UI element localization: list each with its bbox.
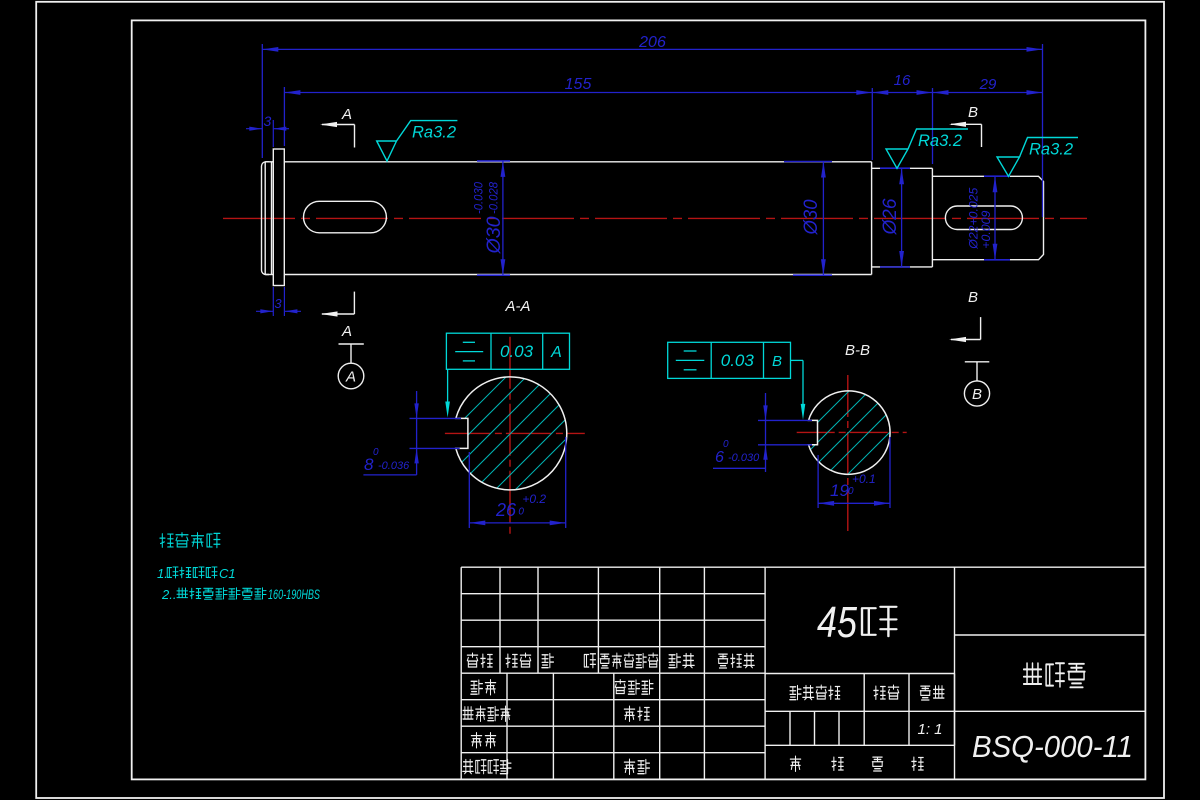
dim 26: line and arrows <box>469 522 565 524</box>
shaft left segment right edge <box>271 162 273 275</box>
stage mark / qty / scale row <box>790 685 801 699</box>
sheet count row <box>790 756 800 771</box>
dim phi22: line and arrows <box>994 176 996 260</box>
svg-text:A-A: A-A <box>504 298 530 315</box>
dim phi30 plain: ticks <box>784 161 832 163</box>
roughness Ra3.2 on phi22 <box>997 138 1078 177</box>
section B-B centerlines <box>847 375 849 533</box>
dim 6: vertical line and outside arrows <box>765 393 767 472</box>
technical requirements title <box>160 534 173 548</box>
dim phi26: ticks <box>880 167 910 169</box>
dim 3 top extension line <box>272 120 274 147</box>
svg-text:Ra3.2: Ra3.2 <box>412 124 456 142</box>
keyway slot on phi22 section <box>945 206 1022 230</box>
svg-text:B-B: B-B <box>845 342 870 359</box>
svg-text:C1: C1 <box>219 566 236 581</box>
dim phi26: line and arrows <box>901 168 903 267</box>
svg-text:A: A <box>341 323 352 340</box>
svg-text:-0.028: -0.028 <box>488 181 500 214</box>
phi26 section top edge <box>872 167 933 169</box>
shaft raised collar band (3 wide) <box>273 149 284 286</box>
svg-text:A: A <box>341 106 352 123</box>
phi30 shaft body bottom edge <box>284 274 871 276</box>
geometric tolerance frame A <box>446 333 569 369</box>
tolerance frame A leader arrow <box>447 369 449 402</box>
svg-text:A: A <box>345 369 356 386</box>
svg-text:3: 3 <box>264 113 272 129</box>
svg-text:3: 3 <box>274 296 282 311</box>
geometric tolerance frame B <box>668 342 791 378</box>
svg-text:1: 1: 1: 1 <box>917 721 942 738</box>
dim phi30 plain: line and arrows <box>822 162 824 276</box>
symmetry symbol in frame B <box>676 359 705 361</box>
phi30 shaft body top edge <box>284 161 871 163</box>
section arrow B bottom <box>951 339 981 341</box>
title block signature rows <box>471 680 483 694</box>
section A-A hatching <box>302 310 716 560</box>
svg-text:B: B <box>968 104 978 121</box>
svg-text:-0.030: -0.030 <box>474 181 486 214</box>
svg-text:+0.1: +0.1 <box>852 472 876 486</box>
svg-text:0: 0 <box>848 486 854 497</box>
svg-text:26: 26 <box>495 500 517 520</box>
dim 16 line and arrows <box>872 92 932 94</box>
datum A symbol <box>339 343 364 345</box>
dim 26: extension lines <box>468 452 470 528</box>
dim phi30 toleranced: ticks <box>477 160 510 162</box>
svg-text:155: 155 <box>565 76 592 93</box>
svg-text:Ø30: Ø30 <box>801 199 822 235</box>
svg-text:45: 45 <box>817 598 857 647</box>
svg-text:+0.2: +0.2 <box>522 492 546 506</box>
dim 3 top line with outside arrows <box>246 128 262 130</box>
dim 19: extension lines <box>817 455 819 508</box>
phi26/phi22 step face <box>931 168 933 267</box>
datum B symbol <box>965 361 990 363</box>
svg-text:160-190HBS: 160-190HBS <box>268 587 320 602</box>
dim phi22: ticks <box>984 175 1010 177</box>
shaft left segment top and bottom edges <box>265 161 273 163</box>
phi22 section outline with end chamfer <box>932 176 1043 259</box>
svg-text:Ø22+0.025: Ø22+0.025 <box>967 187 981 249</box>
svg-text:16: 16 <box>894 72 911 89</box>
roughness Ra3.2 on phi26 <box>886 129 968 168</box>
dim phi30 toleranced: line and arrows <box>502 161 504 275</box>
svg-text:Ø30: Ø30 <box>484 216 505 254</box>
svg-text:6: 6 <box>715 449 724 466</box>
dim 3 bottom extension lines <box>272 287 274 316</box>
svg-text:0: 0 <box>518 507 524 518</box>
section A-A outline circle with keyway notch <box>456 377 567 490</box>
svg-text:0: 0 <box>373 447 379 458</box>
section A-A centerlines <box>509 337 511 538</box>
shaft left end edge with rounded corners <box>262 162 270 275</box>
dim 8: vertical line and outside arrows <box>416 391 418 475</box>
roughness Ra3.2 on phi30 <box>377 121 458 161</box>
section arrow A top <box>322 124 355 126</box>
svg-text:-0.030: -0.030 <box>728 452 760 464</box>
phi30/phi26 step face <box>871 162 873 275</box>
svg-text:A: A <box>550 344 562 361</box>
svg-text:206: 206 <box>638 34 666 51</box>
dim 3 bottom line with outside arrows <box>256 310 273 312</box>
dim 16 extension lines <box>871 88 873 160</box>
svg-text:0: 0 <box>723 439 729 450</box>
keyway slot on phi30 section <box>304 201 387 233</box>
dim 19: line and arrows <box>818 502 890 504</box>
svg-text:B: B <box>772 353 782 370</box>
svg-text:B: B <box>968 289 978 306</box>
svg-text:Ra3.2: Ra3.2 <box>1029 141 1073 159</box>
dim 206 line and arrows <box>262 48 1042 50</box>
svg-text:-0.036: -0.036 <box>378 460 410 472</box>
tolerance frame B leader arrow <box>791 359 804 361</box>
dim 155 extension line <box>283 87 285 146</box>
svg-text:0.03: 0.03 <box>500 342 534 361</box>
phi26 section bottom edge <box>872 266 933 268</box>
svg-text:BSQ-000-11: BSQ-000-11 <box>972 729 1133 764</box>
svg-text:B: B <box>972 386 982 403</box>
svg-text:29: 29 <box>979 76 997 93</box>
svg-text:0.03: 0.03 <box>721 351 755 370</box>
part name: output shaft <box>1024 663 1042 684</box>
section arrow A bottom <box>322 313 354 315</box>
dim 8 keyway width: extension lines <box>410 417 462 419</box>
shaft left chamfer line <box>264 162 266 275</box>
svg-text:1.: 1. <box>157 566 168 581</box>
dim 155 line and arrows <box>284 92 872 94</box>
svg-text:19: 19 <box>830 481 849 500</box>
svg-text:2..: 2.. <box>161 587 176 602</box>
dim 6 keyway width: extension lines <box>758 419 812 421</box>
symmetry symbol in frame A <box>455 351 483 353</box>
svg-text:Ø26: Ø26 <box>880 198 901 235</box>
svg-text:Ra3.2: Ra3.2 <box>918 132 962 150</box>
svg-text:+0.009: +0.009 <box>981 210 993 249</box>
dim 29 line and arrows <box>933 92 1043 94</box>
section B-B outline circle with keyway notch <box>809 391 891 474</box>
shaft main centerline (red) <box>223 217 1087 219</box>
dim 206 extension lines <box>261 44 263 158</box>
section arrow B top <box>951 123 982 125</box>
section B-B hatching <box>660 310 1032 560</box>
title block grid <box>461 566 765 568</box>
title block row labels (revision header) <box>467 653 477 667</box>
